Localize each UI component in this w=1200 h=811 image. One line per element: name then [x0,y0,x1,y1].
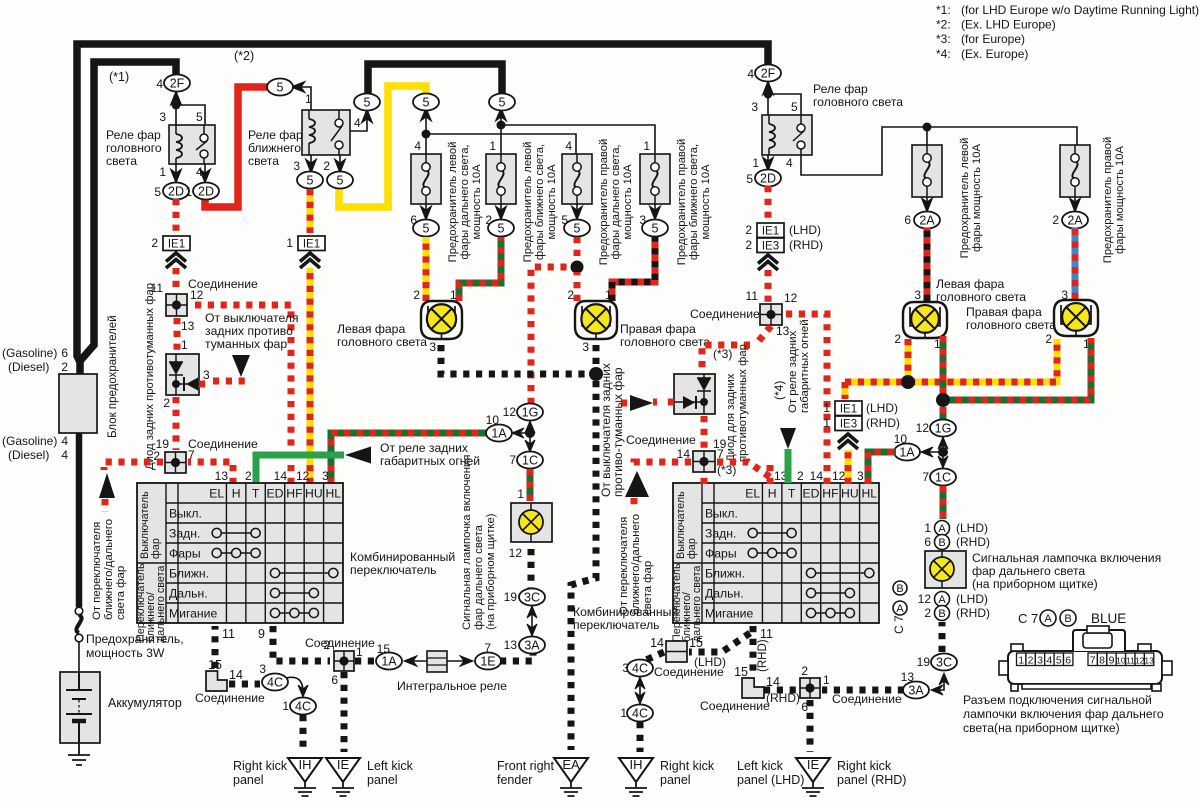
svg-text:9: 9 [258,627,265,641]
svg-text:6: 6 [924,535,931,549]
junction dot green bus [936,393,950,407]
svg-text:Диод для задних: Диод для задних [725,373,737,462]
svg-text:света: света [106,154,137,168]
relay K3 arrow to 2F [763,81,774,95]
wire red dashed lower-right jbox to headlamp switch arrow [634,462,691,467]
diode Диод для задних противотуманных фар (right) [674,374,715,414]
svg-text:6: 6 [61,346,68,360]
svg-text:света фар: света фар [115,566,127,620]
svg-text:1A: 1A [899,445,915,459]
wire red dashed to right headlamp pin2 [574,272,581,301]
svg-text:переключатель: переключатель [350,563,437,577]
svg-text:HL: HL [325,487,341,501]
svg-text:4C: 4C [295,699,311,713]
svg-text:1: 1 [305,92,312,106]
connector IE1 (right mid) [835,401,862,416]
junction Соединение box upper-left [166,294,187,316]
svg-text:3: 3 [857,469,864,483]
wire red thick relay2 to 2D [205,87,268,207]
svg-text:3: 3 [203,368,210,382]
svg-text:1: 1 [752,156,759,170]
svg-text:4: 4 [786,156,793,170]
wire red dashed fuse F3 down [574,237,581,262]
svg-text:4: 4 [61,434,68,448]
svg-text:7: 7 [509,453,516,467]
wire fuse block to 3W fuse (thick) [76,433,83,607]
relay K2 pin1 lead to oval 5 [291,82,311,111]
label Left kick panel [367,759,414,787]
svg-text:3: 3 [293,159,300,173]
connector IE3 (right mid) [835,416,862,431]
svg-text:IE: IE [807,757,820,772]
svg-text:4: 4 [747,67,754,81]
svg-text:Соединение: Соединение [832,692,902,706]
svg-text:6: 6 [904,213,911,227]
fuse F5 bottom lead [922,197,933,212]
connector oval 5 relay K2 pin3 [297,172,323,189]
combination switch table (left) [135,483,343,642]
svg-text:дальнего света: дальнего света [691,566,703,642]
connector oval 2A fuse F5 [914,212,940,229]
svg-text:Right kick: Right kick [660,759,715,773]
svg-text:2: 2 [323,159,330,173]
svg-text:фары ближнего света,: фары ближнего света, [534,144,546,260]
svg-text:4C: 4C [267,675,283,689]
label Реле фар головного света (right) [813,82,903,109]
svg-text:19: 19 [504,590,518,604]
label От реле задних габаритных огней (vertical right) [787,319,811,413]
junction dot 1G-1A-1C (left) [525,428,535,438]
wire red dashed jbox right to table HF [189,305,291,484]
arrows 4C-4C (right) [635,677,645,704]
connector oval 5 fuse F4 bottom [642,220,668,237]
svg-text:T: T [788,487,796,501]
wire red dashed diode left pin (right) [653,399,674,406]
svg-text:H: H [232,487,241,501]
svg-text:фары мощность 10А: фары мощность 10А [971,144,983,252]
label Предохранитель мощность 3W [86,632,184,660]
fuse F1 top lead [421,108,577,154]
svg-text:10: 10 [486,413,500,427]
svg-text:Предохранитель правой: Предохранитель правой [1102,137,1114,263]
svg-text:фары мощность 10А: фары мощность 10А [1114,146,1126,254]
svg-text:(for Europe): (for Europe) [961,32,1025,46]
label Right kick panel (left) [233,759,288,787]
svg-text:Дальн.: Дальн. [169,587,208,601]
svg-text:10: 10 [1116,656,1126,666]
svg-text:Сигнальная лампочка включения: Сигнальная лампочка включения [972,551,1161,565]
svg-text:4: 4 [565,139,572,153]
label Предохранитель левой фары дальнего света 10А [447,142,483,263]
svg-text:6: 6 [331,673,338,687]
svg-text:(*4): (*4) [772,381,786,400]
svg-text:13: 13 [504,638,518,652]
svg-text:(LHD): (LHD) [789,223,821,237]
svg-text:2: 2 [894,332,901,346]
wire green-red dashed 1C down to indicator (right) [940,486,947,519]
svg-text:4: 4 [61,448,68,462]
label (Diesel) 2 [8,360,68,374]
indicator lamp Сигнальная лампочка (left) [511,503,552,542]
svg-text:EL: EL [209,487,224,501]
svg-text:3C: 3C [524,590,540,604]
svg-text:5: 5 [337,173,344,187]
connector oval 5 fuse F3 bottom [564,220,590,237]
svg-text:Интегральное реле: Интегральное реле [397,679,507,693]
headlamp left (right section) [903,302,947,338]
svg-text:(Ex. Europe): (Ex. Europe) [961,47,1028,61]
svg-text:(RHD): (RHD) [757,639,769,672]
svg-text:1C: 1C [522,453,538,467]
svg-text:(Gasoline): (Gasoline) [2,346,57,360]
svg-text:ближнего: ближнего [248,141,301,155]
wire red dashed jbox to diode [174,318,181,350]
label Комбинированный переключатель (right) [573,605,678,632]
wire red dashed lower-right jbox to table H right [717,462,770,477]
svg-text:19: 19 [917,655,931,669]
wire red dashed IE1 to junction box [173,268,180,292]
fuse F2 top lead [496,108,656,154]
svg-text:Соединение: Соединение [654,665,724,679]
svg-text:12: 12 [190,288,204,302]
svg-text:4C: 4C [632,706,648,720]
wire red dashed lower jbox to headlamp switch [104,462,163,470]
svg-text:Ближн.: Ближн. [705,567,745,581]
svg-text:1: 1 [159,165,166,179]
chevron IE1 left [166,253,186,262]
svg-text:15: 15 [208,658,222,672]
svg-text:5: 5 [423,221,430,235]
fuse F1 left high beam 10A [411,154,441,204]
arrows 1G-1A-1C (right) [921,437,948,468]
junction dot under oval 5 [422,130,431,139]
svg-text:(Ex. LHD Europe): (Ex. LHD Europe) [961,18,1056,32]
relay K2 pin4 lead [350,109,373,131]
svg-text:5: 5 [652,221,659,235]
svg-text:противотуманных фар: противотуманных фар [737,344,749,462]
wire black dashed staircase to notch box LHD [689,633,750,652]
ground battery [68,743,90,765]
svg-text:туманных фар: туманных фар [205,337,287,351]
relay K1 Реле фар головного света (left) [169,105,215,164]
arrows 3C-3A (left) [527,606,537,636]
svg-text:Комбинированный: Комбинированный [350,550,455,564]
svg-text:12: 12 [1135,656,1145,666]
svg-text:2: 2 [797,469,804,483]
svg-text:IE3: IE3 [840,419,857,431]
connector IE1 (right relay) [757,223,784,238]
svg-text:*1:: *1: [936,3,951,17]
svg-text:4: 4 [354,116,361,130]
svg-text:5: 5 [574,221,581,235]
label Front right fender [497,759,554,787]
svg-text:(RHD): (RHD) [956,535,990,549]
svg-text:(RHD): (RHD) [789,238,823,252]
svg-text:2A: 2A [1067,213,1083,227]
connector oval 5 fuse F1 bottom [413,220,439,237]
svg-text:5: 5 [277,80,284,94]
diode Диод задних противотуманных фар [166,354,199,395]
label Правая фара головного света [620,322,710,349]
svg-text:EL: EL [745,487,760,501]
svg-text:1C: 1C [935,470,951,484]
svg-text:5: 5 [423,95,430,109]
svg-text:14: 14 [650,636,664,650]
svg-text:A: A [1044,613,1052,625]
label Предохранитель правой фары дальнего света 10А [598,139,634,265]
svg-text:Левая фара: Левая фара [936,277,1004,291]
svg-text:5: 5 [307,173,314,187]
svg-text:14: 14 [274,469,288,483]
svg-text:7: 7 [922,470,929,484]
svg-text:15: 15 [689,636,703,650]
label Предохранитель левой фары мощность 10А [959,138,983,259]
svg-text:Реле фар: Реле фар [106,128,161,142]
wire yellow thick relay2 pin2 [339,86,426,207]
svg-text:panel: panel [660,773,691,787]
svg-text:4: 4 [156,77,163,91]
svg-text:Предохранитель левой: Предохранитель левой [522,142,534,263]
fuse F6 right lamp 10A (right section) [1060,145,1090,197]
svg-text:1: 1 [185,185,192,199]
svg-text:2: 2 [1052,213,1059,227]
svg-text:головного света: головного света [620,335,710,349]
svg-text:fender: fender [497,773,532,787]
svg-text:(RHD): (RHD) [956,606,990,620]
svg-text:*4:: *4: [936,47,951,61]
connector circle B lower (right) [935,606,950,621]
svg-text:Диод задних противотуманных фа: Диод задних противотуманных фар [144,283,156,470]
svg-text:мощность 10А: мощность 10А [471,164,483,240]
svg-text:5: 5 [746,172,753,186]
headlamp left Левая фара головного света [421,301,462,339]
svg-text:2: 2 [61,360,68,374]
headlamp right Правая фара головного света [575,301,617,339]
svg-text:2: 2 [1045,332,1052,346]
svg-text:1: 1 [823,673,830,687]
svg-text:мощность 10А: мощность 10А [622,164,634,240]
svg-text:Предохранитель правой: Предохранитель правой [676,139,688,265]
svg-text:1G: 1G [935,421,952,435]
svg-text:2: 2 [245,469,252,483]
svg-text:головного света: головного света [337,335,427,349]
svg-text:1: 1 [282,699,289,713]
label От реле задних габаритных огней (left) [380,441,480,468]
svg-text:Соединение: Соединение [305,636,375,650]
svg-text:Дальн.: Дальн. [705,587,744,601]
svg-text:15: 15 [734,665,748,679]
svg-text:2: 2 [163,396,170,410]
svg-text:5: 5 [498,221,505,235]
relay K1 pin4 lead [200,164,211,183]
wire yellow-red dashed fuse F1 to left headlamp [423,237,430,301]
junction dot fuse F3 wire [571,261,584,274]
svg-text:Предохранитель левой: Предохранитель левой [959,138,971,259]
svg-text:IE1: IE1 [303,239,320,251]
svg-text:IE1: IE1 [840,404,857,416]
indicator lamp Сигнальная лампочка (right) [925,551,966,588]
fuse F6 bottom lead [1070,197,1081,212]
label От переключателя ближнего/дальнего света фар (right) [618,514,654,615]
svg-text:11: 11 [1126,656,1135,666]
wire green-red dashed 1A to table HL [331,433,488,484]
arrow 4C to 4C (left) [286,677,308,697]
wire black dashed right headlamp ground [593,345,600,374]
wire green-red dashed bus to 1G right [940,407,947,419]
junction dot fuse F2 [497,121,506,130]
svg-text:задних противо: задних противо [205,324,293,338]
relay K3 Реле фар головного света (right) [762,94,812,155]
svg-text:Right kick: Right kick [837,759,892,773]
wire black dashed jbox down to IE ground (right) [807,700,814,752]
svg-text:От выключателя: От выключателя [205,311,299,325]
svg-text:12: 12 [509,546,523,560]
svg-text:2: 2 [413,288,420,302]
label От выключателя задних противотуманных фар (vertical) [599,363,625,497]
label От выключателя задних противотуманных фар [205,311,299,351]
connector oval 1A (left) [486,425,512,442]
ground IH Right kick panel (center-right) [619,757,653,796]
label Left kick panel (LHD) [737,759,804,787]
wire black dashed jbox to IE ground [341,672,348,752]
fuse block Блок предохранителей [59,374,97,433]
connector circle B upper (right) [935,535,950,550]
svg-text:1: 1 [450,288,457,302]
svg-text:1: 1 [924,521,931,535]
svg-text:3: 3 [322,469,329,483]
svg-text:13: 13 [1144,656,1154,666]
relay K3 pin1 lead [763,155,774,171]
svg-text:От переключателя: От переключателя [618,517,630,615]
svg-text:2F: 2F [170,76,185,90]
connector oval 4C lower (left) [290,698,316,715]
wire green-red dashed 1C to indicator lamp [527,469,534,501]
connector notch box Соединение (left) [206,671,227,691]
svg-text:Left kick: Left kick [367,759,414,773]
svg-text:Мигание: Мигание [169,607,217,621]
svg-text:*3:: *3: [936,32,951,46]
svg-text:8: 8 [1099,655,1105,667]
svg-text:(Diesel): (Diesel) [8,448,49,462]
label Right kick panel (center-right) [660,759,715,787]
svg-text:Задн.: Задн. [169,527,200,541]
svg-text:(for LHD Europe w/o Daytime Ru: (for LHD Europe w/o Daytime Running Ligh… [961,3,1199,17]
ground EA Front right fender [554,757,588,796]
svg-text:фар дальнего света: фар дальнего света [972,564,1085,578]
svg-text:противо-туманных фар: противо-туманных фар [611,367,625,497]
svg-text:11: 11 [746,289,759,303]
connector oval 1G (left) [517,404,543,421]
wire black dashed center ground run [571,381,596,750]
relay K3 pin4 wire to fuses [801,127,1077,175]
connector oval 5 above relay K2 [354,94,380,111]
connector oval 2D (right) [755,170,781,187]
svg-text:головного света: головного света [936,290,1026,304]
svg-text:1: 1 [517,487,524,501]
connector oval 2F (right) [755,65,781,82]
label Комбинированный переключатель (left) [350,550,455,577]
svg-text:головного: головного [106,141,162,155]
svg-text:panel: panel [233,773,264,787]
arrow from rear fog switch (left) [232,355,250,377]
svg-text:Left kick: Left kick [737,759,784,773]
svg-text:1: 1 [489,139,496,153]
wire red dash before arrow [621,400,629,407]
svg-text:2: 2 [745,223,752,237]
label Реле фар головного света (left) [106,128,162,168]
svg-text:4C: 4C [632,661,648,675]
svg-text:Right kick: Right kick [233,759,288,773]
svg-text:фар дальнего света: фар дальнего света [473,524,485,630]
chevron IE right [758,255,778,264]
wire red dashed diode pin3 [199,381,248,384]
svg-text:12: 12 [832,469,846,483]
label (Gasoline) 4 [2,434,68,448]
svg-text:5: 5 [154,185,161,199]
svg-text:1: 1 [286,236,293,250]
svg-text:5: 5 [364,95,371,109]
svg-text:лампочки включения фар дальнег: лампочки включения фар дальнего [963,707,1164,721]
wire red dashed IE to jbox right [765,270,772,302]
fuse F5 left lamp 10A (right section) [912,145,942,197]
svg-text:Фары: Фары [705,547,737,561]
svg-text:Блок предохранителей: Блок предохранителей [107,315,119,438]
svg-text:IE1: IE1 [762,226,779,238]
wire mid feed (thick black) [368,64,502,96]
connector box Соединение (LHD) [666,641,687,662]
svg-text:головного света: головного света [966,318,1056,332]
svg-text:EA: EA [562,757,580,772]
fuse F3 bottom lead [572,204,583,220]
label C 7 A B vertical [892,581,907,634]
svg-text:11: 11 [760,627,773,641]
connector oval 4C lower (right) [627,705,653,722]
wire red dash below arrow right [631,498,638,506]
connector circle A upper (right) [935,521,950,536]
connector IE3 (right relay) [757,238,784,253]
svg-text:Комбинированный: Комбинированный [573,605,678,619]
svg-text:дальнего света: дальнего света [155,566,167,642]
svg-text:2D: 2D [168,184,184,198]
svg-text:ED: ED [803,487,820,501]
svg-text:Предохранитель правой: Предохранитель правой [598,139,610,265]
svg-text:2: 2 [151,236,158,250]
connector oval 5 fuse F1 top [413,94,439,111]
arrow from headlamp switch (right) [625,471,649,497]
branch to fuse F5 [926,127,928,145]
svg-text:IE: IE [337,757,350,772]
svg-text:panel: panel [367,773,398,787]
svg-text:5: 5 [499,95,506,109]
legend notes [936,3,1199,61]
svg-text:света(на приборном щитке): света(на приборном щитке) [963,721,1120,735]
svg-text:2A: 2A [919,213,935,227]
svg-text:мощность 10А: мощность 10А [700,164,712,240]
combination switch table (right) [671,483,879,642]
svg-text:Соединение: Соединение [626,433,696,447]
connector oval 5 fuse F2 top [489,94,515,111]
connector IE1 (middle) [298,236,325,251]
connector oval 5 fuse F2 bottom [488,220,514,237]
fuse 3W symbol [75,607,83,642]
svg-text:IE3: IE3 [762,241,779,253]
svg-text:фары дальнего света,: фары дальнего света, [610,144,622,259]
svg-text:3A: 3A [908,683,924,697]
arrow on green (right) [780,428,796,449]
connector oval 4C upper (left) [262,674,288,691]
label Предохранитель правой фары мощность 10А [1102,137,1126,263]
svg-text:4: 4 [196,165,203,179]
